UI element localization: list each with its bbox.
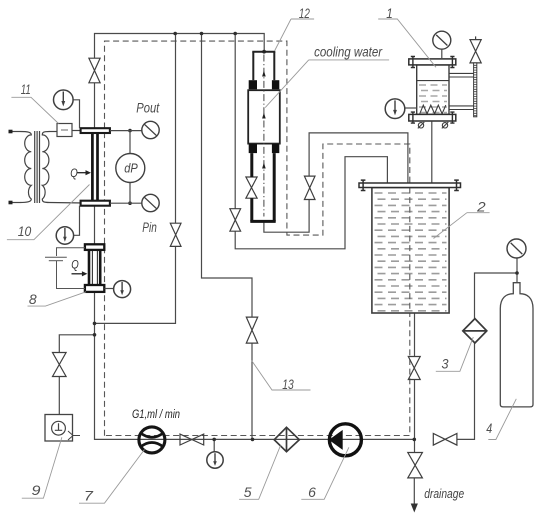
svg-text:7: 7 (84, 487, 94, 503)
svg-text:dP: dP (124, 161, 138, 176)
svg-text:8: 8 (29, 291, 37, 307)
svg-text:Q: Q (71, 260, 79, 272)
svg-text:13: 13 (282, 376, 294, 392)
svg-text:11: 11 (21, 81, 31, 97)
svg-text:6: 6 (308, 484, 316, 500)
svg-text:Q: Q (70, 168, 78, 180)
svg-text:10: 10 (18, 223, 32, 239)
svg-text:Pout: Pout (136, 101, 160, 116)
svg-text:5: 5 (244, 484, 252, 500)
svg-text:4: 4 (486, 420, 492, 436)
svg-text:3: 3 (442, 356, 449, 372)
svg-text:9: 9 (32, 482, 41, 498)
svg-text:Pin: Pin (142, 220, 157, 235)
svg-text:2: 2 (476, 198, 486, 214)
svg-text:G1,ml / min: G1,ml / min (132, 407, 180, 421)
svg-text:12: 12 (299, 5, 310, 21)
svg-text:cooling water: cooling water (314, 44, 383, 60)
svg-text:1: 1 (386, 5, 393, 21)
svg-text:drainage: drainage (424, 486, 464, 501)
